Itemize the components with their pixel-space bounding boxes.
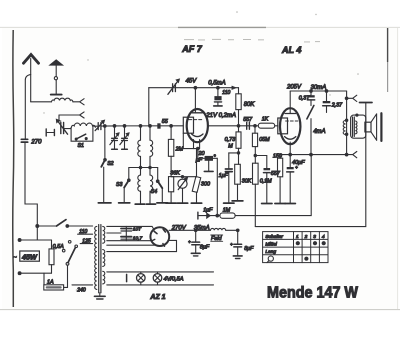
- svg-text:S2: S2: [107, 161, 113, 167]
- svg-text:1μF: 1μF: [219, 173, 229, 179]
- svg-text:8μF: 8μF: [200, 245, 210, 251]
- svg-text:300: 300: [201, 181, 210, 187]
- svg-text:3: 3: [313, 234, 316, 240]
- svg-text:10,7: 10,7: [133, 236, 143, 242]
- svg-text:4mA: 4mA: [313, 129, 325, 135]
- svg-text:557: 557: [243, 117, 253, 123]
- svg-text:80K: 80K: [244, 102, 256, 108]
- svg-text:0,5A: 0,5A: [53, 244, 64, 250]
- svg-text:10T: 10T: [133, 226, 142, 232]
- svg-text:~: ~: [13, 254, 17, 261]
- svg-text:110: 110: [79, 229, 87, 235]
- svg-text:AF 7: AF 7: [181, 44, 202, 54]
- svg-text:1K: 1K: [262, 116, 269, 122]
- svg-text:0,73: 0,73: [225, 137, 236, 143]
- svg-text:270V: 270V: [171, 226, 187, 232]
- svg-text:4: 4: [322, 234, 325, 240]
- svg-text:+: +: [295, 165, 298, 170]
- svg-text:557: 557: [271, 171, 281, 177]
- svg-text:30mA: 30mA: [311, 85, 327, 91]
- svg-text:M: M: [228, 144, 233, 150]
- svg-text:30K: 30K: [242, 178, 252, 184]
- svg-text:0,1M: 0,1M: [260, 178, 272, 184]
- svg-text:205V: 205V: [286, 85, 302, 91]
- svg-text:55: 55: [162, 119, 169, 125]
- svg-text:1: 1: [296, 234, 299, 240]
- svg-text:45W: 45W: [21, 253, 38, 262]
- svg-text:2,37: 2,37: [331, 102, 343, 108]
- svg-text:0,5mA: 0,5mA: [208, 80, 225, 86]
- svg-text:*: *: [214, 155, 216, 161]
- svg-text:AL 4: AL 4: [281, 45, 301, 55]
- svg-text:1A: 1A: [47, 279, 54, 285]
- svg-text:20: 20: [198, 151, 205, 157]
- svg-text:S4: S4: [151, 189, 157, 195]
- svg-text:0,3T: 0,3T: [299, 96, 310, 102]
- svg-text:2: 2: [304, 234, 308, 240]
- svg-text:240: 240: [76, 288, 86, 294]
- svg-text:1μF: 1μF: [203, 208, 213, 214]
- svg-text:4V/0,5A: 4V/0,5A: [164, 277, 184, 283]
- svg-text:S1: S1: [78, 143, 84, 149]
- svg-text:150: 150: [273, 153, 282, 159]
- svg-text:AZ 1: AZ 1: [149, 294, 165, 301]
- svg-text:110: 110: [222, 90, 230, 96]
- svg-text:S3: S3: [116, 182, 122, 188]
- svg-text:40μF: 40μF: [292, 160, 305, 166]
- svg-text:270: 270: [30, 140, 42, 146]
- svg-text:36K: 36K: [170, 170, 180, 176]
- svg-text:05M: 05M: [259, 137, 270, 143]
- svg-text:Lang: Lang: [265, 249, 276, 255]
- svg-text:125: 125: [82, 239, 91, 245]
- svg-text:8μF: 8μF: [244, 246, 254, 252]
- svg-text:Mittel: Mittel: [265, 242, 277, 248]
- svg-text:Schalter: Schalter: [265, 234, 283, 240]
- svg-text:21V 0,2mA: 21V 0,2mA: [205, 113, 236, 119]
- svg-text:45V: 45V: [186, 79, 198, 85]
- svg-text:Mende 147 W: Mende 147 W: [267, 284, 358, 301]
- svg-text:1M: 1M: [223, 208, 231, 214]
- svg-text:2M: 2M: [175, 147, 184, 153]
